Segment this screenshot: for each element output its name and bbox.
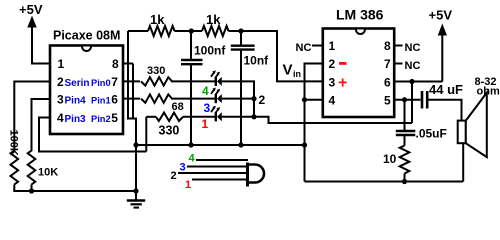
wire common bus — [253, 99, 255, 117]
svg-text:2: 2 — [329, 57, 336, 71]
RGB LED package drawing — [178, 160, 264, 187]
node 100nf/ground rail — [188, 142, 193, 147]
wire zobel vertical — [404, 100, 406, 130]
speaker 8-32 ohm — [458, 76, 500, 182]
ground rail — [136, 144, 305, 146]
minus red — [339, 62, 347, 65]
wire 10K bottom — [31, 185, 33, 192]
svg-text:330: 330 — [147, 65, 165, 77]
wire red LED row to +5V under-chip line — [222, 117, 412, 123]
wire between 1k resistors — [175, 30, 203, 32]
svg-text:8: 8 — [384, 39, 391, 53]
wire 330 to green LED — [171, 80, 215, 82]
svg-text:100K: 100K — [8, 130, 20, 156]
node rail/10nf — [238, 28, 243, 33]
svg-text:6: 6 — [384, 76, 391, 90]
wire rail to Vin corner — [229, 31, 323, 81]
svg-text:44 uF: 44 uF — [429, 82, 463, 97]
node common bus top — [251, 96, 256, 101]
svg-text:7: 7 — [111, 75, 118, 89]
wire top rail left — [128, 30, 148, 32]
wire 44uF to speaker — [429, 100, 462, 121]
node 1k/100nf — [189, 28, 194, 33]
svg-text:2: 2 — [171, 170, 177, 182]
svg-text:1: 1 — [329, 39, 336, 53]
wire cap to 10 — [404, 136, 406, 146]
svg-text:.05uF: .05uF — [416, 127, 447, 141]
wire pin2 LM386 ground — [305, 64, 323, 182]
svg-text:100nf: 100nf — [194, 44, 226, 58]
resistor 1k (right) — [202, 26, 229, 36]
svg-text:3: 3 — [204, 101, 211, 115]
wire pin4 Pin3 to ground — [39, 118, 146, 152]
NC pin1 — [296, 42, 323, 54]
svg-text:Serin: Serin — [65, 78, 90, 89]
+5V supply right — [429, 8, 453, 82]
resistor 100K — [11, 148, 19, 185]
svg-text:10K: 10K — [38, 167, 58, 179]
wire 330 to red LED — [183, 116, 215, 118]
node ground rail left — [133, 142, 138, 147]
wire pin7 to 330 — [123, 80, 140, 82]
svg-text:2: 2 — [57, 75, 64, 89]
bottom rail right — [305, 181, 464, 183]
wire audio rail vertical — [127, 31, 129, 119]
svg-text:1k: 1k — [150, 12, 165, 27]
svg-text:ohm: ohm — [477, 86, 500, 98]
node 10nf/ground rail — [238, 142, 243, 147]
node ground rail right — [302, 142, 307, 147]
wire ground vertical — [135, 118, 137, 192]
wire 100K bottom to ground rail — [14, 185, 136, 192]
svg-text:10nf: 10nf — [244, 54, 270, 68]
svg-text:Pin4: Pin4 — [65, 95, 87, 106]
wire pin5 output — [394, 99, 421, 101]
wire pin2 Serin to 100K — [14, 82, 50, 149]
wire to 330 red — [146, 116, 156, 118]
svg-text:1: 1 — [202, 117, 209, 131]
wire 330 red lead vertical — [145, 117, 147, 152]
svg-text:4: 4 — [329, 94, 336, 108]
resistor 330 (green) — [141, 77, 172, 85]
LED green — [211, 70, 222, 86]
wire blue LED to common bus — [222, 98, 254, 100]
LM 386 IC body — [323, 7, 394, 118]
LED red — [211, 106, 222, 122]
svg-text:in: in — [293, 69, 301, 79]
capacitor .05uF — [396, 127, 447, 141]
wire pin8 vertical — [132, 64, 134, 119]
svg-text:1: 1 — [185, 179, 191, 191]
svg-text:1k: 1k — [206, 12, 221, 27]
wire pin3 Pin4 to 10K — [32, 99, 51, 148]
svg-text:4: 4 — [57, 111, 64, 125]
wire pin6 to 68 — [123, 98, 140, 100]
node common bus bottom — [251, 114, 256, 119]
svg-text:2: 2 — [259, 93, 266, 107]
svg-text:NC: NC — [405, 42, 421, 54]
resistor 10K — [28, 148, 36, 185]
wire green LED to common bus — [222, 81, 254, 98]
+5V supply left — [19, 2, 50, 64]
svg-text:Pin2: Pin2 — [91, 114, 111, 124]
capacitor 44uF — [422, 82, 463, 109]
svg-text:+: + — [338, 75, 347, 92]
node ground bottom — [133, 188, 138, 193]
wire hook joining verticals — [127, 118, 136, 120]
svg-text:+5V: +5V — [429, 8, 453, 23]
pin 2 Serin labels — [57, 75, 118, 89]
svg-text:NC: NC — [405, 60, 421, 72]
wire 68 to blue LED — [171, 98, 215, 100]
svg-text:3: 3 — [57, 92, 64, 106]
resistor 1k (left) — [148, 26, 175, 36]
svg-text:Picaxe 08M: Picaxe 08M — [53, 29, 120, 43]
wire 10 to bottom rail — [404, 174, 406, 182]
svg-text:1: 1 — [58, 57, 65, 71]
node 10/bottom rail — [402, 179, 407, 184]
Picaxe 08M IC body — [50, 29, 123, 135]
pin 8 stub — [123, 63, 133, 65]
svg-text:8: 8 — [112, 57, 119, 71]
capacitor 10nf — [231, 31, 269, 145]
Vin label — [283, 62, 302, 80]
capacitor 100nf — [181, 31, 226, 145]
svg-text:330: 330 — [159, 124, 180, 138]
ground — [127, 191, 145, 208]
svg-text:68: 68 — [172, 101, 184, 113]
svg-text:+5V: +5V — [19, 2, 43, 17]
node pin4 junction — [302, 97, 307, 102]
svg-text:4: 4 — [202, 84, 209, 98]
resistor 68 — [141, 94, 172, 102]
svg-text:Pin3: Pin3 — [65, 114, 87, 125]
wire pin6 to +5V — [394, 81, 442, 83]
pin 3 Pin4 labels — [57, 92, 118, 106]
LED blue — [211, 88, 222, 104]
wire pin4 stub — [305, 99, 323, 101]
svg-text:3: 3 — [180, 161, 186, 173]
wire +5V branch down — [411, 82, 413, 124]
svg-text:5: 5 — [384, 94, 391, 108]
svg-text:NC: NC — [296, 42, 312, 54]
pin 4 Pin3 labels — [57, 111, 118, 125]
NC pin8 — [394, 42, 420, 54]
svg-text:5: 5 — [111, 111, 118, 125]
svg-text:Pin0: Pin0 — [91, 78, 111, 88]
svg-text:4: 4 — [189, 153, 196, 165]
resistor 10 — [400, 146, 410, 174]
node 10K/rail — [29, 188, 34, 193]
resistor 330 (red) — [156, 113, 183, 121]
node pin5/zobel — [402, 97, 407, 102]
NC pin7 — [394, 60, 420, 72]
svg-text:6: 6 — [111, 92, 118, 106]
svg-text:V: V — [283, 62, 293, 79]
svg-text:LM 386: LM 386 — [336, 7, 384, 23]
svg-text:7: 7 — [384, 57, 391, 71]
svg-text:10: 10 — [383, 152, 397, 166]
svg-text:3: 3 — [329, 76, 336, 90]
node pin6/+5V branch — [409, 79, 414, 84]
svg-text:Pin1: Pin1 — [91, 95, 111, 105]
